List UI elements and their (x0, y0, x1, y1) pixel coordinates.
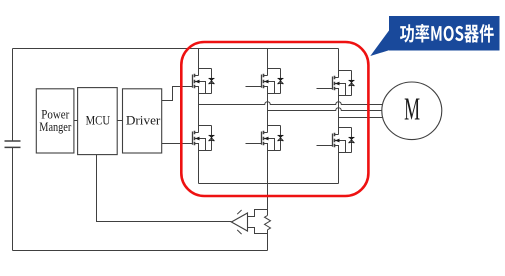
wire VCC left (upper) (12, 49, 14, 142)
wire Driver to Q1 gate (162, 87, 193, 101)
block U2 MCU (78, 88, 118, 155)
svg-text:Driver: Driver (126, 114, 161, 128)
wire op-amp input- across shunt bottom (248, 228, 268, 234)
block U1 Power Manger (36, 89, 74, 153)
wire MCU-Driver (117, 120, 123, 122)
wire Q5 source to bottom rail (267, 144, 269, 184)
resistor R1 shunt (265, 215, 271, 229)
transistor Q3 (N-MOSFET) (317, 71, 355, 96)
wire rail to Q1 drain (198, 49, 200, 76)
wire VCC top rail (13, 48, 339, 50)
wire rail to Q2 drain (267, 49, 269, 76)
svg-text:MCU: MCU (86, 114, 111, 128)
wire Q2 source to Q5 drain (phase node) (267, 87, 269, 133)
transistor Q6 (N-MOSFET) (317, 128, 355, 153)
transistor Q1 (N-MOSFET) (193, 69, 215, 94)
block U3 Driver (123, 89, 162, 153)
op-amp U4 current sense (231, 210, 247, 234)
wire shunt to GND return (267, 230, 269, 251)
wire bottom rail to shunt (267, 184, 269, 216)
transistor Q5 (N-MOSFET) (246, 126, 284, 151)
wire PowerManger-MCU (74, 120, 79, 122)
wire Q3 source to Q6 drain (phase node) (338, 89, 340, 135)
highlight box: power MOS section (181, 42, 368, 196)
svg-text:M: M (404, 91, 420, 127)
wire GND left (lower) (12, 147, 14, 250)
capacitor C1 (5, 141, 21, 147)
wire rail to Q3 drain (338, 49, 340, 78)
wire Q6 source to bottom rail (338, 146, 340, 184)
wire phase W to motor (339, 117, 383, 119)
transistor Q4 (N-MOSFET) (193, 126, 215, 151)
motor M1 (382, 82, 442, 140)
callout label: 功率MOS器件 (power MOS devices) (370, 16, 499, 56)
wire phase U to motor (hops over columns) (199, 102, 383, 105)
wire Driver to Q4 gate (162, 143, 193, 145)
wire Q4 source to bottom rail (198, 144, 200, 184)
wire MCU to op-amp output (97, 155, 232, 222)
wire phase V to motor (hop over column) (268, 108, 383, 111)
wire bottom rail (199, 183, 339, 185)
transistor Q2 (N-MOSFET) (246, 69, 284, 94)
wire op-amp input+ across shunt top (248, 210, 268, 217)
svg-text:Manger: Manger (39, 120, 71, 134)
wire Q1 source to Q4 drain (phase node) (198, 87, 200, 133)
wire GND return bottom (13, 250, 268, 252)
